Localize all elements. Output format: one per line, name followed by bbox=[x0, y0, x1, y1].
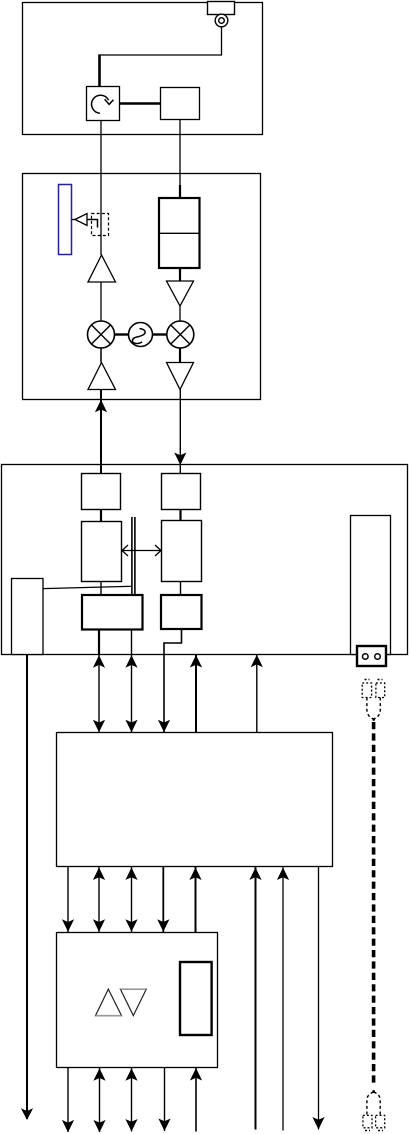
enclosure box U4 bbox=[57, 733, 333, 867]
enclosure box U2 bbox=[23, 174, 261, 400]
wire antenna to bend bbox=[100, 27, 222, 55]
wire bus line a (bidirectional) bbox=[98, 630, 100, 655]
wire up into U3 (line d) bbox=[195, 654, 197, 733]
plug P1 (top, dotted) bbox=[362, 683, 371, 698]
level indicator down triangle bbox=[120, 989, 146, 1016]
wire j (up into U4, thick) bbox=[195, 866, 197, 932]
tall positioner box (right) bbox=[351, 516, 391, 655]
wire g (bidirectional) bbox=[98, 866, 100, 932]
amplifier A2 (up) bbox=[88, 363, 116, 390]
wire r (up into U5) bbox=[195, 1067, 197, 1132]
wire f (down into U5) bbox=[67, 866, 69, 932]
wire attenuator to A3 (thick) bbox=[179, 268, 181, 281]
long wire k (up into U4, thick) bbox=[255, 866, 257, 1130]
amplifier A1 (up) bbox=[88, 255, 116, 282]
wire circulator to TX box (thick) bbox=[120, 102, 161, 105]
IF line up into RF unit (wire + arrow) bbox=[100, 390, 102, 474]
wire left horn to driver box bbox=[100, 582, 102, 596]
wire n (down output) bbox=[67, 1067, 69, 1132]
TX line down to processing unit (wire + arrow) bbox=[179, 390, 181, 474]
enclosure box U1 bbox=[23, 3, 263, 135]
wire TX box down to RF unit bbox=[179, 119, 181, 185]
long wire m (down output) bbox=[318, 866, 320, 1130]
wire i (down into U5, thick) bbox=[162, 866, 164, 932]
plug P2 (bottom, dotted) bbox=[372, 1090, 375, 1093]
right horn box bbox=[162, 521, 202, 582]
amplifier A4 (down) bbox=[167, 363, 194, 390]
jog wire from right driver down bbox=[164, 629, 182, 732]
level indicator up triangle bbox=[96, 989, 122, 1016]
left horn box bbox=[82, 522, 122, 582]
arrowhead up into RF unit bbox=[95, 400, 107, 413]
attenuator stack (two-cell rectangle) bbox=[159, 198, 200, 268]
wire left converter to left horn (thick) bbox=[100, 509, 102, 521]
right converter box bbox=[162, 474, 201, 510]
wire A1 to mixer M1 bbox=[100, 282, 102, 321]
long left wire (controller output) bbox=[26, 654, 28, 1119]
sample plate (double lines) bbox=[131, 517, 133, 595]
arrowhead down into processing unit bbox=[174, 453, 186, 466]
measurement gap double arrow bbox=[122, 550, 161, 552]
wire M2 to amplifier A4 (thick) bbox=[179, 348, 181, 363]
wire right converter to right horn (thick) bbox=[179, 509, 181, 520]
driver box (wide, thick) bbox=[82, 595, 143, 630]
coupling probe bbox=[87, 220, 98, 228]
amplifier A3 (down) bbox=[167, 281, 194, 306]
wire bus line b (bidirectional) bbox=[131, 630, 133, 733]
antenna feed block bbox=[208, 2, 235, 15]
wire bend down to circulator (thick) bbox=[98, 54, 101, 86]
wire q (down output) bbox=[164, 1067, 166, 1131]
keypad rectangle (thick) bbox=[180, 962, 212, 1035]
right driver box (thick) bbox=[161, 595, 202, 629]
mixer M1 (circle with X) bbox=[88, 321, 115, 348]
wire up into U3 (line e) bbox=[256, 654, 258, 733]
socket connector J1 bbox=[357, 646, 386, 666]
wire p (bidirectional) bbox=[131, 1067, 133, 1132]
directional coupler (dashed box) bbox=[92, 214, 109, 236]
local oscillator (circle with sine) bbox=[115, 333, 129, 335]
wire A3 to mixer M2 bbox=[179, 306, 181, 321]
enclosure box U3 bbox=[2, 465, 408, 655]
long wire l (up into U4) bbox=[282, 866, 284, 1131]
circulator rotation arrow bbox=[92, 95, 109, 113]
circulator box bbox=[87, 87, 120, 121]
mains cable (thick dashed) bbox=[372, 722, 376, 1084]
left converter box bbox=[82, 474, 121, 510]
controller box (left narrow) bbox=[12, 579, 44, 655]
enclosure box U5 bbox=[57, 933, 218, 1068]
wire o (bidirectional) bbox=[99, 1067, 101, 1132]
detector amplifier (left-pointing triangle) bbox=[72, 219, 76, 221]
display module (blue) bbox=[59, 185, 72, 255]
wire M1 to amplifier A2 bbox=[100, 348, 102, 363]
transmitter box bbox=[161, 88, 200, 120]
antenna element (double circle) bbox=[215, 14, 228, 27]
wire right horn to right driver bbox=[180, 581, 182, 595]
wire h (bidirectional) bbox=[131, 866, 133, 932]
reference line controller to sample bbox=[43, 586, 131, 588]
mixer M2 (circle with X) bbox=[167, 321, 194, 348]
wire circulator down to RF unit bbox=[100, 120, 102, 255]
